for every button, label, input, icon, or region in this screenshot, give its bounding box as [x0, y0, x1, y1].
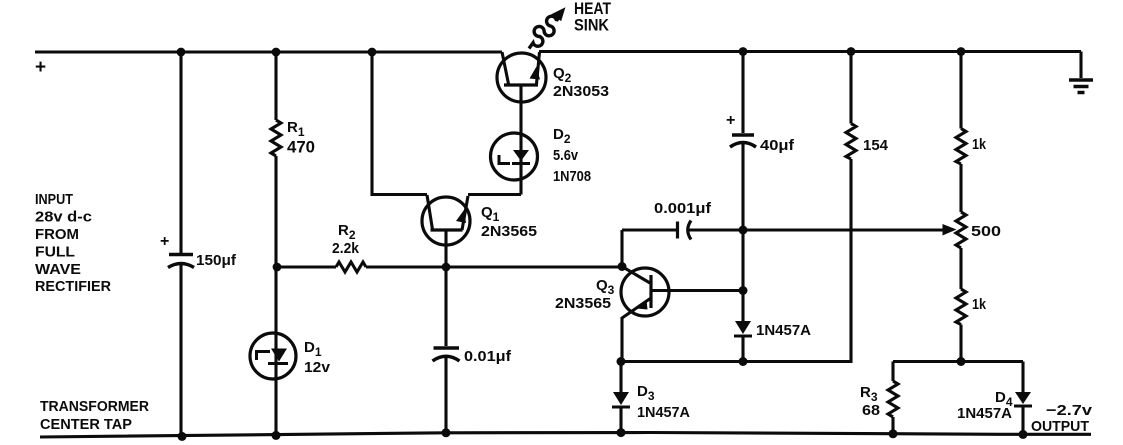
- junction pot chain bottom: [957, 357, 966, 366]
- svg-text:28v d-c: 28v d-c: [35, 210, 92, 226]
- junction D4 bottom (output node): [1019, 430, 1028, 439]
- label R2: [338, 222, 356, 242]
- svg-text:1N457A: 1N457A: [756, 322, 811, 339]
- svg-text:R1: R1: [287, 119, 305, 139]
- svg-text:D3: D3: [637, 383, 655, 403]
- svg-text:12v: 12v: [304, 359, 331, 376]
- capacitor C 150uf: [168, 255, 194, 437]
- svg-text:2N3565: 2N3565: [555, 295, 611, 312]
- svg-text:2N3565: 2N3565: [481, 223, 537, 240]
- svg-text:1N457A: 1N457A: [957, 405, 1012, 422]
- svg-text:TRANSFORMER: TRANSFORMER: [40, 399, 150, 415]
- zener diode D2: [491, 133, 538, 180]
- label Q3: [596, 277, 615, 297]
- svg-text:Q2: Q2: [553, 65, 572, 85]
- transistor Q1 2N3565: [422, 195, 470, 267]
- wire between 500 and 1k lower: [959, 248, 962, 289]
- junction top rail at 40uf: [739, 47, 748, 56]
- label Q2: [553, 65, 572, 85]
- svg-text:R2: R2: [338, 222, 356, 242]
- wire between 1k and 500: [959, 164, 962, 212]
- label SINK: [574, 16, 610, 35]
- svg-text:OUTPUT: OUTPUT: [1031, 418, 1089, 435]
- wire R2 to Q3 base node: [366, 265, 622, 268]
- wire Q1 emitter to D2: [468, 193, 521, 196]
- wire R3-D4 top bar: [893, 360, 1023, 363]
- junction top rail at Q1 feed: [368, 48, 377, 57]
- wire R2 left stub: [276, 265, 336, 268]
- svg-text:D2: D2: [553, 126, 571, 146]
- heat sink squiggle arrow: [522, 2, 572, 54]
- svg-text:RECTIFIER: RECTIFIER: [35, 279, 112, 295]
- label R3: [860, 384, 878, 404]
- label 2N3565 (Q3): [555, 295, 611, 312]
- label D2: [553, 126, 571, 146]
- wire Q1 collector feed: [372, 52, 427, 195]
- junction Q3 base node: [618, 262, 627, 271]
- svg-text:FROM: FROM: [35, 227, 79, 243]
- diode 1N457A (middle): [734, 291, 752, 362]
- wire 40uf node down: [741, 230, 744, 291]
- wire 1k chain top: [959, 52, 962, 129]
- label 2N3565 (Q1): [481, 223, 537, 240]
- label 1N708: [553, 168, 591, 185]
- label 0.001uf: [654, 200, 712, 217]
- label 1k lower: [972, 296, 987, 313]
- label 1N457A (middle): [756, 322, 811, 339]
- label 500: [971, 223, 1001, 240]
- wire 154 branch top: [849, 52, 852, 124]
- junction Q1 base node: [442, 263, 451, 272]
- svg-text:+: +: [35, 57, 46, 78]
- wire Q3 base node up to 0.001uf line: [620, 230, 623, 267]
- svg-text:+: +: [160, 233, 169, 250]
- wire 154 down and left to D3 node: [621, 159, 851, 362]
- wire Q3 collector: [651, 289, 743, 292]
- junction bottom rail at D3: [617, 428, 626, 437]
- svg-text:FULL: FULL: [35, 245, 75, 261]
- svg-text:500: 500: [971, 223, 1001, 240]
- label Q1: [481, 204, 500, 224]
- resistor R1: [271, 120, 281, 156]
- capacitor 0.01uf: [433, 348, 460, 433]
- wire R1 to D1: [274, 156, 277, 436]
- junction bottom rail at D1: [272, 431, 281, 440]
- wire 40uf branch top: [741, 52, 744, 134]
- label 5.6v: [553, 147, 579, 164]
- svg-text:Q1: Q1: [481, 204, 500, 224]
- resistor 1k upper: [956, 129, 966, 165]
- junction R2 left node: [273, 263, 282, 272]
- zener diode D1: [250, 333, 296, 379]
- junction top rail at 150uf: [177, 48, 186, 57]
- label 1N457A (D4): [957, 405, 1012, 422]
- label 2.2k: [332, 240, 360, 257]
- label 470: [287, 139, 315, 157]
- label D4: [995, 389, 1013, 409]
- svg-text:CENTER TAP: CENTER TAP: [40, 417, 132, 433]
- wire 0.001uf left segment: [622, 228, 678, 231]
- label + of 150uf: [160, 233, 169, 250]
- label 2N3053: [553, 83, 609, 100]
- label 1k upper: [972, 136, 987, 153]
- label INPUT 28v d-c FROM FULL WAVE RECTIFIER: [35, 192, 112, 295]
- junction top rail at 154: [847, 47, 856, 56]
- wire top rail left segment: [35, 50, 502, 53]
- label 68: [862, 402, 880, 419]
- svg-text:−2.7v: −2.7v: [1046, 402, 1093, 419]
- junction bottom rail at 150uf: [178, 432, 187, 441]
- svg-text:5.6v: 5.6v: [553, 147, 579, 164]
- node + (input positive): [35, 57, 46, 78]
- svg-text:Q3: Q3: [596, 277, 615, 297]
- wire 150uf branch upper: [179, 52, 182, 253]
- transistor Q2 2N3053: [497, 52, 546, 102]
- label R1: [287, 119, 305, 139]
- capacitor 0.001uf: [678, 221, 692, 240]
- svg-text:2.2k: 2.2k: [332, 240, 360, 257]
- wire top rail right segment: [539, 50, 1081, 53]
- label HEAT: [574, 0, 612, 18]
- label 150uf value: [196, 252, 237, 269]
- wire 0.001uf to pot wiper: [689, 228, 945, 231]
- svg-text:470: 470: [287, 139, 315, 157]
- svg-text:154: 154: [863, 137, 889, 154]
- label 154: [863, 137, 889, 154]
- junction bottom rail at 0.01uf: [442, 428, 451, 437]
- diode D3 1N457A: [612, 362, 630, 433]
- svg-text:1k: 1k: [972, 296, 987, 313]
- wire 1k chain bottom: [959, 325, 962, 362]
- resistor R3 68: [888, 362, 898, 434]
- wire bottom rail (transformer center tap): [40, 433, 1091, 438]
- label + of 40uf: [726, 112, 735, 129]
- resistor 154: [846, 124, 856, 160]
- label 40uf value: [760, 137, 795, 154]
- junction Q3 collector node: [739, 286, 748, 295]
- diode D4 1N457A: [1014, 362, 1032, 435]
- ground: [1069, 52, 1093, 93]
- wire 0.01uf top: [444, 267, 447, 346]
- svg-text:0.01μf: 0.01μf: [464, 348, 512, 365]
- label TRANSFORMER CENTER TAP: [40, 399, 150, 433]
- wire D2 vertical: [519, 86, 522, 195]
- potentiometer 500: [956, 212, 966, 248]
- svg-text:2N3053: 2N3053: [553, 83, 609, 100]
- junction 1N457A bottom node: [739, 357, 748, 366]
- wire R1 branch top: [274, 52, 277, 120]
- svg-text:INPUT: INPUT: [35, 192, 73, 208]
- label 1N457A (D3): [637, 404, 690, 421]
- svg-text:0.001μf: 0.001μf: [654, 200, 712, 217]
- capacitor 40uf: [730, 135, 756, 230]
- junction top rail at 1k chain: [957, 47, 966, 56]
- junction 40uf line with 0.001uf line: [739, 226, 748, 235]
- resistor 1k lower: [956, 289, 966, 325]
- label -2.7v: [1046, 402, 1093, 419]
- label OUTPUT: [1031, 418, 1089, 435]
- svg-text:1N457A: 1N457A: [637, 404, 690, 421]
- junction R3 bottom: [889, 429, 898, 438]
- junction D3 top node: [617, 357, 626, 366]
- pot wiper arrowhead: [943, 224, 957, 236]
- svg-text:SINK: SINK: [574, 16, 610, 35]
- svg-text:D1: D1: [304, 339, 322, 359]
- svg-text:+: +: [726, 112, 735, 129]
- resistor R2 2.2k: [336, 262, 366, 272]
- label 12v: [304, 359, 331, 376]
- svg-text:150μf: 150μf: [196, 252, 237, 269]
- label 0.01uf: [464, 348, 512, 365]
- svg-text:1k: 1k: [972, 136, 987, 153]
- svg-text:68: 68: [862, 402, 880, 419]
- svg-text:WAVE: WAVE: [35, 262, 81, 278]
- transistor Q3 2N3565: [621, 267, 669, 362]
- svg-text:40μf: 40μf: [760, 137, 795, 154]
- label D3: [637, 383, 655, 403]
- svg-text:R3: R3: [860, 384, 878, 404]
- svg-text:1N708: 1N708: [553, 168, 591, 185]
- junction top rail at R1: [272, 48, 281, 57]
- label D1: [304, 339, 322, 359]
